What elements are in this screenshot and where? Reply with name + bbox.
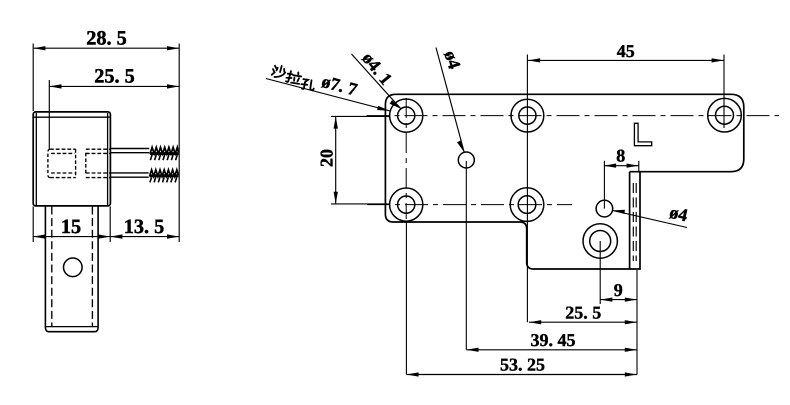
svg-text:25. 5: 25. 5 (565, 302, 601, 322)
extension line right column top (723, 55, 725, 129)
leader line d4.1 (352, 54, 401, 109)
svg-text:9: 9 (614, 280, 623, 300)
svg-text:25. 5: 25. 5 (94, 66, 135, 88)
leader line d4 top (436, 48, 464, 153)
hole d bottom right counterbore (583, 224, 617, 258)
dim 45 (528, 59, 724, 61)
extension line left column below plate (405, 222, 407, 375)
svg-text:39. 45: 39. 45 (531, 330, 576, 350)
dim 25.5 bottom (529, 321, 637, 323)
body inner right edge line (107, 113, 109, 206)
screw 1 (top) shank (110, 149, 149, 153)
extension line small hole d4 center down (465, 161, 467, 350)
extension line big hole down (599, 241, 601, 304)
screw 1 thread (150, 147, 178, 160)
centerline horizontal top row (367, 98, 780, 219)
dim 53.25 (406, 374, 637, 376)
leader line shalakong d7.7 (266, 79, 390, 111)
body inner top edge line (34, 116, 110, 118)
dim 8 (604, 165, 639, 167)
plate outline (385, 94, 743, 269)
char la (285, 70, 302, 85)
extension line flange right up (638, 161, 640, 171)
extension/center line mid column (406, 55, 724, 375)
screw 1 core band (150, 152, 179, 155)
label shalakong 7.7: hand-drawn CJK strokes (270, 64, 317, 92)
leader line d4 right (613, 210, 688, 227)
hole 1 top-left (counterbore) (390, 99, 423, 132)
svg-text:45: 45 (617, 41, 635, 61)
small hole d4 center (458, 152, 474, 168)
hole 2 top-middle (511, 99, 544, 132)
screw 2 thread (150, 170, 179, 183)
tab hidden edge lines (dashed) (52, 207, 93, 327)
tab bottom inner line (46, 326, 98, 328)
hidden hole capsule (dashed) inside body (48, 149, 110, 177)
hole 3 top-right (708, 98, 742, 132)
screw 2 core band (150, 174, 179, 177)
body inner left edge line (35, 113, 37, 206)
svg-text:28. 5: 28. 5 (86, 27, 127, 49)
flange strip hidden lines (dashed) (633, 183, 636, 261)
hole 4 bottom-left (390, 188, 423, 221)
dim 20 (331, 116, 390, 203)
extension line right edge below plate (636, 270, 638, 375)
centerline horizontal bottom row (367, 204, 572, 206)
hole 5 bottom-middle (510, 188, 544, 222)
dim 39.45 (466, 349, 637, 351)
svg-text:15: 15 (61, 216, 81, 238)
L-shaped slot (634, 123, 651, 145)
svg-text:8: 8 (616, 146, 625, 166)
screw 2 (bottom) shank (110, 173, 149, 177)
dim 15 / 13.5 line (33, 207, 179, 243)
body block outline (33, 112, 110, 206)
tab hole (64, 258, 83, 277)
centerline vertical left column (405, 98, 407, 219)
char kong (300, 78, 315, 92)
svg-text:20: 20 (317, 149, 337, 167)
bottom tab outline (45, 206, 98, 332)
svg-text:53. 25: 53. 25 (500, 355, 545, 375)
hidden tapped hole lines to right face (51, 152, 75, 154)
small hole d4 right (596, 200, 613, 217)
char sha (271, 64, 286, 79)
svg-text:13. 5: 13. 5 (124, 216, 165, 238)
dim 28.5 (33, 44, 179, 243)
extension line small hole d4 right up (603, 161, 605, 209)
dim 25.5 left extension (49, 80, 179, 149)
dim 9 (600, 299, 637, 301)
